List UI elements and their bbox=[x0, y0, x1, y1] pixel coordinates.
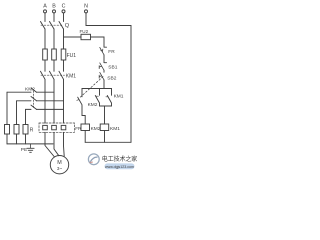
contactor KM2 linkage dashed vertical bbox=[33, 91, 35, 108]
motor M circle bbox=[50, 156, 68, 174]
thermal relay FR heater box dashed bbox=[39, 123, 75, 132]
switch Q pole A blade bbox=[41, 22, 46, 30]
svg-text:N: N bbox=[84, 3, 88, 9]
node B label bbox=[52, 3, 56, 9]
wire left drop 2 bbox=[16, 101, 18, 125]
svg-text:SB1: SB1 bbox=[108, 65, 117, 71]
wire rotor branch 2 right bbox=[37, 100, 64, 102]
wire KM2 coil to N bus bbox=[84, 131, 86, 143]
wire phase B Q to FU1 bbox=[53, 29, 55, 49]
thermal relay FR contact label bbox=[108, 49, 115, 55]
svg-text:C: C bbox=[62, 3, 66, 9]
contactor KM1 main contact B bbox=[50, 71, 55, 79]
resistor R label bbox=[30, 128, 34, 134]
wire R1 to bus bbox=[6, 134, 8, 144]
svg-text:Q: Q bbox=[65, 23, 70, 29]
wire SB2 to branch junction bbox=[103, 80, 105, 89]
wire phase A Q to FU1 bbox=[44, 29, 46, 49]
coil KM1 bbox=[100, 124, 109, 131]
wire motor lead B bbox=[54, 132, 59, 155]
resistor R3 bbox=[23, 125, 28, 135]
contactor KM2 contact 1 blade bbox=[31, 88, 37, 92]
contactor KM2 aux contact branch bbox=[78, 89, 86, 125]
svg-text:KM1: KM1 bbox=[66, 73, 77, 79]
terminal C bbox=[62, 10, 65, 13]
wire SB1 to SB2 bbox=[103, 70, 105, 72]
wire rotor star bus bbox=[7, 143, 53, 145]
terminal A bbox=[44, 10, 47, 13]
wire phase C KM1 to FR box bbox=[63, 79, 65, 123]
svg-text:www.dgjs123.com: www.dgjs123.com bbox=[105, 165, 134, 169]
wire left drop 3 bbox=[25, 109, 27, 124]
wire KM1 coil to N bus bbox=[104, 131, 106, 143]
contactor KM2 main label bbox=[25, 86, 35, 92]
watermark text bbox=[102, 155, 137, 163]
svg-text:FR: FR bbox=[108, 49, 115, 55]
svg-text:R: R bbox=[30, 128, 34, 134]
thermal relay FR heater element B bbox=[52, 125, 57, 129]
wire left drop 1 bbox=[6, 92, 8, 124]
contactor KM2 aux label bbox=[88, 102, 98, 108]
wire R3 to bus bbox=[25, 134, 27, 144]
terminal N bbox=[85, 10, 88, 13]
wire phase B KM1 to FR box bbox=[53, 79, 55, 123]
wire phase B FU1 to KM1 bbox=[53, 60, 55, 71]
wire phase B drop bbox=[53, 13, 55, 22]
ground PE label bbox=[21, 147, 27, 153]
wire phase C Q to FU1 bbox=[63, 29, 65, 49]
fuse FU2 label bbox=[80, 29, 89, 34]
wire rotor branch 1 bbox=[7, 91, 31, 93]
contactor KM1 aux contact left bbox=[95, 89, 99, 107]
switch Q linkage dashed bbox=[41, 24, 63, 26]
pushbutton SB2 label bbox=[107, 75, 116, 81]
contactor KM1 main contact C bbox=[59, 71, 64, 79]
node C label bbox=[62, 3, 66, 9]
svg-text:KM1: KM1 bbox=[110, 126, 120, 132]
coil KM2 bbox=[81, 124, 90, 131]
wire motor lead C bbox=[63, 132, 66, 156]
wire FU2 to control line bbox=[91, 37, 105, 47]
svg-text:KM1: KM1 bbox=[114, 94, 124, 100]
wire rotor branch 3 right bbox=[37, 108, 64, 110]
terminal B bbox=[53, 10, 56, 13]
wire pair exit to KM1 coil bbox=[104, 106, 106, 124]
resistor R2 bbox=[14, 125, 19, 135]
wire phase C FU1 to KM1 bbox=[63, 60, 65, 71]
wire rotor branch 2 bbox=[17, 100, 32, 102]
switch Q pole C blade bbox=[59, 22, 64, 30]
fuse FU1 pole C bbox=[61, 49, 66, 60]
coil KM2 label bbox=[91, 126, 101, 132]
contactor KM1 aux contact right bbox=[107, 89, 111, 107]
ground symbol bbox=[27, 144, 34, 152]
svg-text:3~: 3~ bbox=[57, 166, 63, 171]
svg-text:A: A bbox=[43, 3, 47, 9]
thermal relay FR heater element A bbox=[43, 125, 48, 129]
node A label bbox=[43, 3, 47, 9]
fuse FU1 label bbox=[67, 53, 77, 59]
svg-text:KM2: KM2 bbox=[25, 86, 35, 92]
thermal relay FR heater element C bbox=[61, 125, 66, 129]
coil KM1 label bbox=[110, 126, 120, 132]
wire branch bar bottom bbox=[100, 105, 112, 107]
wire branch bar top bbox=[82, 88, 112, 90]
thermal relay FR heater label bbox=[75, 126, 82, 131]
motor M label bbox=[57, 160, 63, 171]
wire R2 to bus bbox=[16, 134, 18, 144]
node N label bbox=[84, 3, 88, 9]
thermal relay FR NC contact bbox=[100, 47, 107, 55]
wire phase A drop bbox=[44, 13, 46, 22]
linkage tick on KM2 aux blade bbox=[77, 96, 108, 100]
linkage dashed SB2 to KM2 bbox=[80, 77, 103, 98]
wire N drop and right rail bbox=[86, 13, 131, 142]
svg-text:SB2: SB2 bbox=[107, 75, 116, 81]
svg-text:KM2: KM2 bbox=[91, 126, 101, 132]
wire phase A FU1 to KM1 bbox=[44, 60, 46, 71]
wire motor lead A bbox=[45, 132, 55, 157]
wire FR to SB1 bbox=[103, 55, 105, 63]
pushbutton SB2 start NO bbox=[99, 72, 104, 80]
wire phase C drop bbox=[63, 13, 65, 22]
svg-text:PE: PE bbox=[21, 147, 27, 153]
watermark url pill bbox=[105, 163, 135, 169]
resistor R1 bbox=[5, 125, 10, 135]
wire phase A KM1 to FR box bbox=[44, 79, 46, 123]
fuse FU1 pole A bbox=[43, 49, 48, 60]
fuse FU1 pole B bbox=[52, 49, 57, 60]
contactor KM1 main contact A bbox=[41, 71, 46, 79]
wire control tap from phase C bbox=[64, 36, 82, 38]
svg-text:KM2: KM2 bbox=[88, 102, 98, 108]
contactor KM1 main label bbox=[66, 73, 77, 79]
contactor KM1 aux label bbox=[114, 94, 124, 100]
pushbutton SB1 stop NC bbox=[99, 63, 106, 70]
svg-text:FU1: FU1 bbox=[67, 53, 77, 59]
fuse FU2 bbox=[81, 34, 91, 39]
svg-text:FU2: FU2 bbox=[80, 29, 89, 34]
svg-text:电工技术之家: 电工技术之家 bbox=[102, 155, 137, 163]
wire rotor branch 1 right bbox=[37, 91, 55, 93]
watermark logo circle bbox=[88, 154, 99, 165]
switch Q pole B blade bbox=[50, 22, 55, 30]
contactor KM2 contact 3 blade bbox=[31, 105, 37, 109]
contactor KM1 linkage dashed bbox=[41, 74, 65, 76]
wire rotor branch 3 bbox=[26, 108, 32, 110]
svg-text:B: B bbox=[52, 3, 56, 9]
wire N bus bottom bbox=[85, 141, 131, 143]
contactor KM2 contact 2 blade bbox=[31, 97, 37, 101]
switch Q label bbox=[65, 23, 70, 29]
pushbutton SB1 label bbox=[108, 65, 117, 71]
